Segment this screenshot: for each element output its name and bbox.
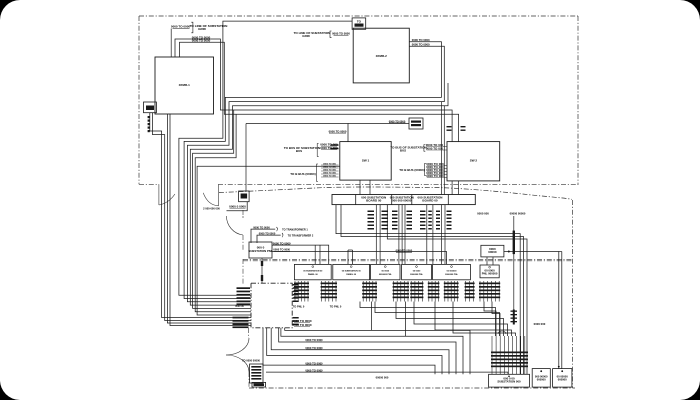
- vertical feeder label under switch box: [148, 116, 150, 118]
- wire MB feeder to panels run: [272, 245, 329, 264]
- svg-text:000 000 00000: 000 000 00000: [392, 199, 412, 203]
- wire branch riser C: [193, 110, 251, 308]
- svg-text:000000: 000000: [558, 378, 567, 382]
- wire SWG-1 to bus A: [359, 180, 361, 194]
- svg-text:2 000-000 000: 2 000-000 000: [203, 206, 220, 210]
- wire P4 comb feeder down: [405, 302, 407, 337]
- MDP bottom run 1: [285, 328, 470, 375]
- switchgear SWG-1: [340, 142, 391, 181]
- feeder comb group 1: [294, 281, 309, 302]
- svg-text:SUBSTATION PNL: SUBSTATION PNL: [248, 249, 272, 253]
- panel P3: [371, 264, 400, 279]
- svg-text:XFMR-2: XFMR-2: [376, 54, 387, 58]
- bus drop triple to panel P4: [398, 205, 400, 265]
- double door chevron bottom arc: [226, 355, 249, 372]
- wire bus to right riser 1: [336, 205, 520, 374]
- MDP bottom run 3: [279, 328, 456, 375]
- wire P3 comb feeder down: [371, 302, 373, 331]
- wall segment at bottom left: [248, 372, 250, 388]
- wire T2 pair to bus B: [443, 106, 445, 195]
- transformer T2: [353, 28, 409, 83]
- double door chevron top arc: [226, 338, 249, 355]
- svg-text:0000 TO 000: 0000 TO 000: [320, 146, 338, 150]
- feeder comb group 6: [428, 281, 440, 302]
- wall segment above door: [242, 210, 244, 216]
- wire MB to MDP top: [261, 258, 263, 283]
- bracket at utility stub: [191, 22, 193, 33]
- svg-text:BUS: BUS: [296, 149, 302, 153]
- svg-text:00 000000: 00 000000: [447, 271, 458, 273]
- wire riser to handhole: [245, 124, 247, 192]
- svg-text:TO B BUS (00000): TO B BUS (00000): [290, 172, 315, 176]
- distribution box MB: [249, 242, 272, 258]
- junction dot right of spare box: [508, 251, 510, 253]
- bus drop labels P4: [392, 211, 398, 213]
- svg-text:0000 000: 0000 000: [534, 322, 546, 326]
- panel P2: [333, 264, 370, 279]
- wire P6 comb to bottom: [484, 302, 496, 337]
- fence bottom boundary: [218, 184, 578, 186]
- svg-text:00000 000: 00000 000: [376, 376, 389, 380]
- feeder comb group 8: [465, 281, 475, 302]
- svg-text:XFMR-1: XFMR-1: [179, 83, 190, 87]
- wire SWG-2 to bus B: [458, 181, 460, 195]
- handhole lateral wire: [227, 202, 248, 211]
- wire switch box riser 2: [153, 113, 252, 321]
- wavy boundary line: [219, 187, 572, 199]
- svg-text:BOARD 00: BOARD 00: [366, 199, 382, 203]
- wire T1 bottom riser 1: [167, 114, 251, 323]
- svg-text:TO LINE OF SUBSTATION: TO LINE OF SUBSTATION: [294, 31, 331, 35]
- second feeder run from MB: [272, 252, 447, 265]
- fence gate arc 1: [159, 194, 175, 205]
- wire bus to right riser 3: [387, 205, 527, 374]
- svg-text:00 0000: 00 0000: [382, 271, 390, 273]
- svg-text:TO PNL 0: TO PNL 0: [330, 304, 342, 308]
- svg-text:TO: TO: [357, 20, 362, 24]
- wire P5 comb feeder to bottom comb: [414, 302, 508, 337]
- wire P5 comb feeder to bottom comb 2: [435, 302, 512, 337]
- wire T2 right feeder B: [187, 46, 444, 302]
- building right boundary: [572, 200, 574, 388]
- svg-text:0000000 PNL: 0000000 PNL: [379, 274, 393, 276]
- panel P6: [480, 265, 499, 278]
- svg-text:0000 TO 000: 0000 TO 000: [426, 146, 444, 150]
- wire P2 comb feeder to bottom comb: [360, 302, 496, 337]
- svg-text:00 0000: 00 0000: [413, 271, 421, 273]
- line level bottom box: [252, 382, 266, 387]
- svg-text:TO BUS OF SUBSTATION: TO BUS OF SUBSTATION: [390, 146, 426, 150]
- wire T1 secondary run to switchgear A: [175, 39, 452, 142]
- gate post 1: [158, 184, 160, 205]
- line level riser box: [250, 364, 263, 383]
- svg-text:00 SUBSTATION 00: 00 SUBSTATION 00: [342, 270, 362, 273]
- bus drop labels P5 right: [436, 211, 440, 213]
- wall segment lower: [248, 328, 250, 338]
- MDP bottom run 2: [281, 328, 463, 375]
- switch box on T2 top: [352, 18, 366, 29]
- bus drop pair to panel P3: [375, 205, 377, 265]
- ground rod lower: [513, 310, 515, 325]
- feeder comb group 9: [479, 281, 500, 302]
- wire switch box riser 1: [150, 113, 251, 318]
- stub to panel P1 top a: [314, 245, 316, 264]
- bus duct row: [332, 195, 475, 205]
- MDP right side marks upper: [293, 284, 299, 286]
- fence gate arc 2: [203, 193, 218, 206]
- feeder comb group 3: [362, 281, 377, 302]
- bus drop pair to panel P5 left: [426, 205, 428, 265]
- fence left jog: [139, 183, 159, 185]
- svg-text:SUBSTATION 000: SUBSTATION 000: [497, 380, 521, 384]
- bus row divider 3: [411, 195, 413, 205]
- svg-text:TO PNL 0: TO PNL 0: [293, 304, 305, 308]
- bottom box B2: [532, 369, 550, 388]
- bottom switchboard box B1: [489, 374, 530, 387]
- wire run to junction box: [348, 123, 409, 125]
- wire T2 bottom feeder: [190, 83, 448, 305]
- handhole box HH: [239, 191, 250, 202]
- bracket left of T2: [330, 31, 332, 37]
- wire bus to right riser 2: [341, 205, 524, 374]
- bottom comb arc top: [498, 331, 506, 334]
- building wall upper horizontal double line: [243, 258, 572, 260]
- wire spare box to bottom right pair: [504, 252, 559, 369]
- feeder comb group 4: [393, 281, 409, 302]
- main distribution panel MDP: [251, 283, 292, 328]
- wire P6 comb to bottom 2: [492, 302, 500, 337]
- wall segment below door: [242, 235, 244, 250]
- wire B-bus run to riser: [197, 166, 340, 315]
- junction box on run: [409, 118, 423, 129]
- gate post 2: [218, 184, 220, 206]
- fence left boundary: [138, 16, 140, 184]
- wire T2 pair to bus A: [440, 102, 442, 195]
- MDP right side marks lower: [293, 317, 299, 319]
- svg-text:0000 000: 0000 000: [477, 212, 489, 216]
- feeder comb group 2: [321, 281, 337, 302]
- wire T2 right feeder A: [184, 42, 441, 299]
- MDP bottom run 4: [271, 328, 449, 375]
- svg-text:00000: 00000: [488, 250, 497, 254]
- wire P5 comb feeder to bottom comb 3: [453, 302, 516, 337]
- svg-text:TO LINE OF SUBSTATION: TO LINE OF SUBSTATION: [190, 24, 229, 28]
- SWG-1 left stub labels: [331, 144, 339, 146]
- wire MB to transformer 2 note: [257, 235, 281, 243]
- panel P1: [294, 264, 331, 279]
- transformer T1: [155, 57, 214, 114]
- stub labels on SWG-2 feeders: [447, 126, 452, 127]
- wire branch riser D: [195, 114, 251, 312]
- junction dot above B3: [558, 366, 560, 368]
- wire P4 comb feeder to bottom comb: [396, 302, 504, 337]
- svg-text:TO TRANSFORMER 1: TO TRANSFORMER 1: [282, 228, 308, 231]
- bus row divider 4: [447, 195, 449, 205]
- MDP bottom run 6: [263, 328, 435, 375]
- panel P5: [433, 264, 471, 279]
- wire MB to transformer 1 note: [251, 229, 275, 243]
- svg-text:SW 2: SW 2: [470, 159, 478, 163]
- panel P4: [402, 264, 432, 279]
- bus row divider 2: [391, 195, 393, 205]
- wire parallel right drop: [561, 252, 563, 369]
- switch box left of T1: [144, 102, 157, 113]
- svg-text:0000 00: 0000 00: [235, 305, 244, 308]
- wire P3 comb feeder to bottom comb: [375, 302, 500, 337]
- spare panel box: [481, 245, 504, 257]
- svg-text:GRID: GRID: [198, 27, 207, 31]
- wire T1 to utility stub: [170, 29, 172, 58]
- fence right boundary: [577, 16, 579, 185]
- svg-text:0000 TO 0000: 0000 TO 0000: [171, 25, 190, 29]
- wire SWG-1 to bus B: [369, 180, 371, 194]
- bottom box B3: [553, 369, 572, 388]
- svg-text:PNL 000000: PNL 000000: [482, 272, 498, 276]
- bottom comb labels: [491, 352, 528, 354]
- svg-text:BOARD 00: BOARD 00: [422, 199, 438, 203]
- svg-text:PANEL 00: PANEL 00: [346, 273, 357, 276]
- stub to panel P1 top b: [319, 245, 321, 264]
- svg-text:000000: 000000: [537, 378, 546, 382]
- svg-text:TO TRANSFORMER 2: TO TRANSFORMER 2: [288, 234, 314, 237]
- MDP bottom run 5: [267, 328, 442, 375]
- bottom long run: [266, 372, 508, 374]
- svg-text:TO 0000 00000: TO 0000 00000: [242, 358, 261, 362]
- svg-text:SW 1: SW 1: [362, 159, 370, 163]
- svg-text:GRID: GRID: [302, 34, 310, 38]
- bus drop pair to panel P5 right: [440, 205, 442, 265]
- wire spare to P6 b: [492, 257, 494, 265]
- wire loop T2 switch to left riser: [179, 21, 352, 295]
- wire SWG-2 to bus A: [451, 181, 453, 195]
- wire spare to P6 a: [486, 257, 488, 265]
- svg-text:0000 TO 0000: 0000 TO 0000: [253, 225, 270, 229]
- svg-text:BUS: BUS: [400, 149, 406, 153]
- svg-text:0000000 PNL: 0000000 PNL: [445, 274, 459, 276]
- svg-text:00 SUBSTATION 00: 00 SUBSTATION 00: [303, 270, 323, 273]
- door arc into building: [226, 216, 243, 235]
- switchgear SWG-2: [447, 142, 500, 181]
- stub run to panel P2: [347, 250, 349, 264]
- bus row divider 1: [355, 195, 357, 205]
- svg-text:0000 TO 0000: 0000 TO 0000: [259, 231, 276, 235]
- wire to SWG-1 top: [246, 124, 348, 142]
- wire T1 bottom riser 2: [170, 114, 251, 326]
- ground conductor: [513, 216, 515, 310]
- feeder comb group 5: [410, 281, 423, 302]
- building bottom boundary: [249, 387, 575, 389]
- bus drop labels P5 left: [420, 211, 426, 213]
- feeder comb group 7: [444, 281, 459, 302]
- bus drop labels P3: [368, 211, 375, 213]
- svg-text:PANEL 00: PANEL 00: [308, 273, 319, 276]
- wall segment left of panels: [242, 259, 244, 284]
- svg-text:TO B BUS (00000): TO B BUS (00000): [399, 168, 424, 172]
- svg-text:00000 00000: 00000 00000: [510, 212, 526, 216]
- wire T1 secondary run to switchgear B: [180, 42, 459, 141]
- MDP left feeder labels lower: [233, 317, 249, 319]
- fence top boundary: [139, 15, 578, 17]
- bottom comb vertical feeders: [492, 336, 525, 374]
- svg-text:0000000 PNL: 0000000 PNL: [410, 274, 424, 276]
- MDP left feeder labels upper: [237, 287, 251, 289]
